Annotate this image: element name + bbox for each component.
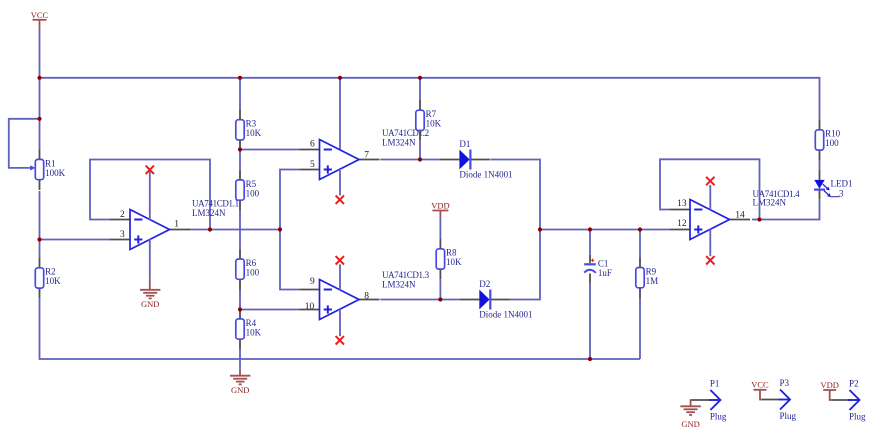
power symbol VCC (P3)	[751, 380, 769, 390]
svg-text:Plug: Plug	[780, 411, 797, 421]
resistor R7	[416, 100, 442, 141]
wire	[90, 160, 210, 230]
wire	[339, 264, 341, 290]
svg-text:Plug: Plug	[710, 412, 727, 422]
svg-text:LM324N: LM324N	[753, 198, 787, 208]
svg-text:LM324N: LM324N	[382, 137, 416, 147]
op-amp U1.1	[110, 210, 190, 250]
wire	[339, 169, 341, 195]
diode D2	[460, 279, 533, 320]
label U1.3	[382, 270, 430, 290]
no-connect X U1.3 bottom	[336, 336, 344, 344]
wire	[380, 159, 440, 161]
wire	[639, 298, 641, 359]
svg-text:UA741CD1.3: UA741CD1.3	[382, 270, 430, 280]
svg-text:3: 3	[839, 189, 844, 199]
svg-text:R9: R9	[646, 266, 657, 276]
no-connect X U1.4 top	[706, 177, 714, 185]
ground GND (R4)	[239, 370, 241, 376]
wire	[760, 199, 820, 219]
resistor R6	[236, 249, 260, 290]
wire	[709, 185, 711, 210]
wire	[239, 150, 241, 170]
svg-text:D1: D1	[459, 139, 470, 149]
svg-text:R8: R8	[446, 248, 457, 258]
connector P3 (plug)	[762, 378, 797, 421]
junction	[588, 227, 592, 231]
wire	[540, 229, 670, 231]
label U1.1	[192, 198, 239, 218]
wire	[660, 159, 760, 219]
junction	[238, 307, 242, 311]
junction	[418, 76, 422, 80]
svg-text:10K: 10K	[45, 276, 61, 286]
wire	[709, 229, 711, 256]
wire	[239, 290, 241, 310]
wire	[589, 283, 591, 359]
junction	[588, 357, 592, 361]
svg-text:10K: 10K	[246, 128, 262, 138]
svg-text:Diode 1N4001: Diode 1N4001	[479, 310, 532, 320]
svg-text:1uF: 1uF	[598, 268, 612, 278]
svg-text:14: 14	[735, 211, 745, 221]
svg-text:P2: P2	[849, 379, 859, 389]
wire	[339, 78, 341, 150]
ground GND (P1)	[680, 406, 700, 429]
svg-text:7: 7	[364, 150, 369, 160]
junction	[238, 147, 242, 151]
wire	[490, 160, 540, 300]
svg-text:LED1: LED1	[831, 178, 853, 188]
svg-text:10K: 10K	[426, 119, 442, 129]
svg-text:LM324N: LM324N	[192, 208, 226, 218]
wire	[149, 239, 151, 280]
wire	[240, 149, 300, 151]
wire	[40, 239, 111, 241]
wire	[239, 349, 241, 370]
svg-text:R10: R10	[825, 129, 841, 139]
connector P2 (plug)	[832, 379, 866, 422]
svg-text:P3: P3	[780, 378, 790, 388]
wire	[691, 400, 693, 406]
junction	[538, 227, 542, 231]
wire	[189, 229, 280, 231]
no-connect X U1.3 top	[336, 256, 344, 264]
svg-text:R2: R2	[45, 267, 56, 277]
svg-text:100: 100	[246, 267, 260, 277]
wire	[149, 170, 151, 220]
wire	[239, 78, 241, 110]
junction	[278, 227, 282, 231]
svg-text:GND: GND	[681, 419, 699, 429]
svg-text:9: 9	[310, 277, 315, 287]
svg-text:R6: R6	[246, 258, 257, 268]
wire	[419, 141, 421, 160]
svg-text:10K: 10K	[446, 257, 462, 267]
svg-text:1: 1	[174, 219, 179, 229]
resistor R3	[236, 110, 262, 151]
wire	[40, 78, 820, 120]
svg-text:VCC: VCC	[31, 10, 49, 20]
svg-text:GND: GND	[231, 385, 249, 395]
resistor R4	[236, 309, 262, 350]
junction	[757, 217, 761, 221]
wire	[439, 217, 441, 238]
svg-text:1M: 1M	[646, 276, 659, 286]
svg-text:VDD: VDD	[820, 380, 838, 390]
resistor R1	[35, 149, 65, 190]
svg-text:10: 10	[305, 302, 315, 312]
svg-text:6: 6	[310, 140, 315, 150]
label U1.4	[753, 189, 801, 208]
op-amp U1.2	[300, 140, 380, 180]
wire	[380, 299, 460, 301]
wire	[589, 230, 591, 255]
wire	[752, 219, 760, 221]
svg-text:12: 12	[677, 219, 687, 229]
wire	[239, 210, 241, 248]
svg-text:10K: 10K	[246, 327, 262, 337]
svg-text:P1: P1	[710, 379, 720, 389]
wire	[280, 170, 300, 290]
svg-text:5: 5	[310, 160, 315, 170]
svg-text:R1: R1	[45, 158, 56, 168]
ground GND (U1.1)	[149, 280, 151, 290]
svg-text:R7: R7	[426, 109, 437, 119]
junction	[338, 76, 342, 80]
svg-text:R3: R3	[246, 119, 257, 129]
power symbol VDD	[431, 200, 449, 217]
diode D1	[440, 139, 513, 180]
svg-text:R4: R4	[246, 318, 257, 328]
svg-text:8: 8	[364, 291, 369, 301]
junction	[208, 227, 212, 231]
power symbol VDD (P2)	[820, 380, 838, 390]
wire	[830, 390, 832, 400]
junction	[418, 157, 422, 161]
svg-text:Plug: Plug	[849, 412, 866, 422]
wire	[819, 160, 821, 169]
svg-text:2: 2	[120, 210, 125, 220]
svg-text:R5: R5	[246, 179, 257, 189]
no-connect X U1.2	[336, 196, 344, 204]
wire	[39, 29, 41, 149]
junction	[438, 297, 442, 301]
svg-text:Diode 1N4001: Diode 1N4001	[459, 170, 512, 180]
wire	[40, 298, 641, 359]
resistor R2	[35, 258, 61, 299]
svg-text:13: 13	[677, 199, 687, 209]
wire	[339, 309, 341, 336]
svg-text:D2: D2	[479, 279, 490, 289]
wire	[9, 119, 40, 168]
wire	[240, 309, 300, 311]
power symbol VCC	[31, 10, 49, 29]
svg-text:VDD: VDD	[431, 200, 449, 210]
no-connect X U1.4 bottom	[706, 256, 714, 264]
junction	[37, 76, 41, 80]
junction	[37, 237, 41, 241]
svg-text:3: 3	[120, 230, 125, 240]
svg-text:LM324N: LM324N	[382, 279, 416, 289]
svg-text:100: 100	[825, 138, 839, 148]
junction	[37, 117, 41, 121]
svg-text:100: 100	[246, 188, 260, 198]
svg-text:UA741CD1.1: UA741CD1.1	[192, 198, 239, 208]
wire	[39, 191, 41, 258]
junction	[238, 76, 242, 80]
wire	[760, 390, 763, 400]
wire	[419, 78, 421, 100]
label U1.2	[382, 128, 429, 148]
svg-text:GND: GND	[141, 299, 159, 309]
connector P1 (plug)	[692, 379, 727, 422]
resistor R10	[815, 120, 840, 161]
wire	[439, 279, 441, 299]
potentiometer arrow R1	[30, 165, 35, 170]
capacitor C1	[584, 255, 612, 283]
resistor R5	[236, 170, 260, 211]
resistor R8	[436, 239, 462, 280]
wire	[639, 230, 641, 258]
svg-text:VCC: VCC	[751, 380, 769, 390]
op-amp U1.3	[300, 280, 380, 320]
no-connect X U1.1	[146, 166, 154, 174]
resistor R9	[636, 257, 658, 298]
svg-text:C1: C1	[598, 259, 609, 269]
LED LED1	[814, 170, 853, 200]
svg-text:100K: 100K	[45, 168, 66, 178]
junction	[638, 227, 642, 231]
op-amp U1.4	[670, 200, 750, 240]
